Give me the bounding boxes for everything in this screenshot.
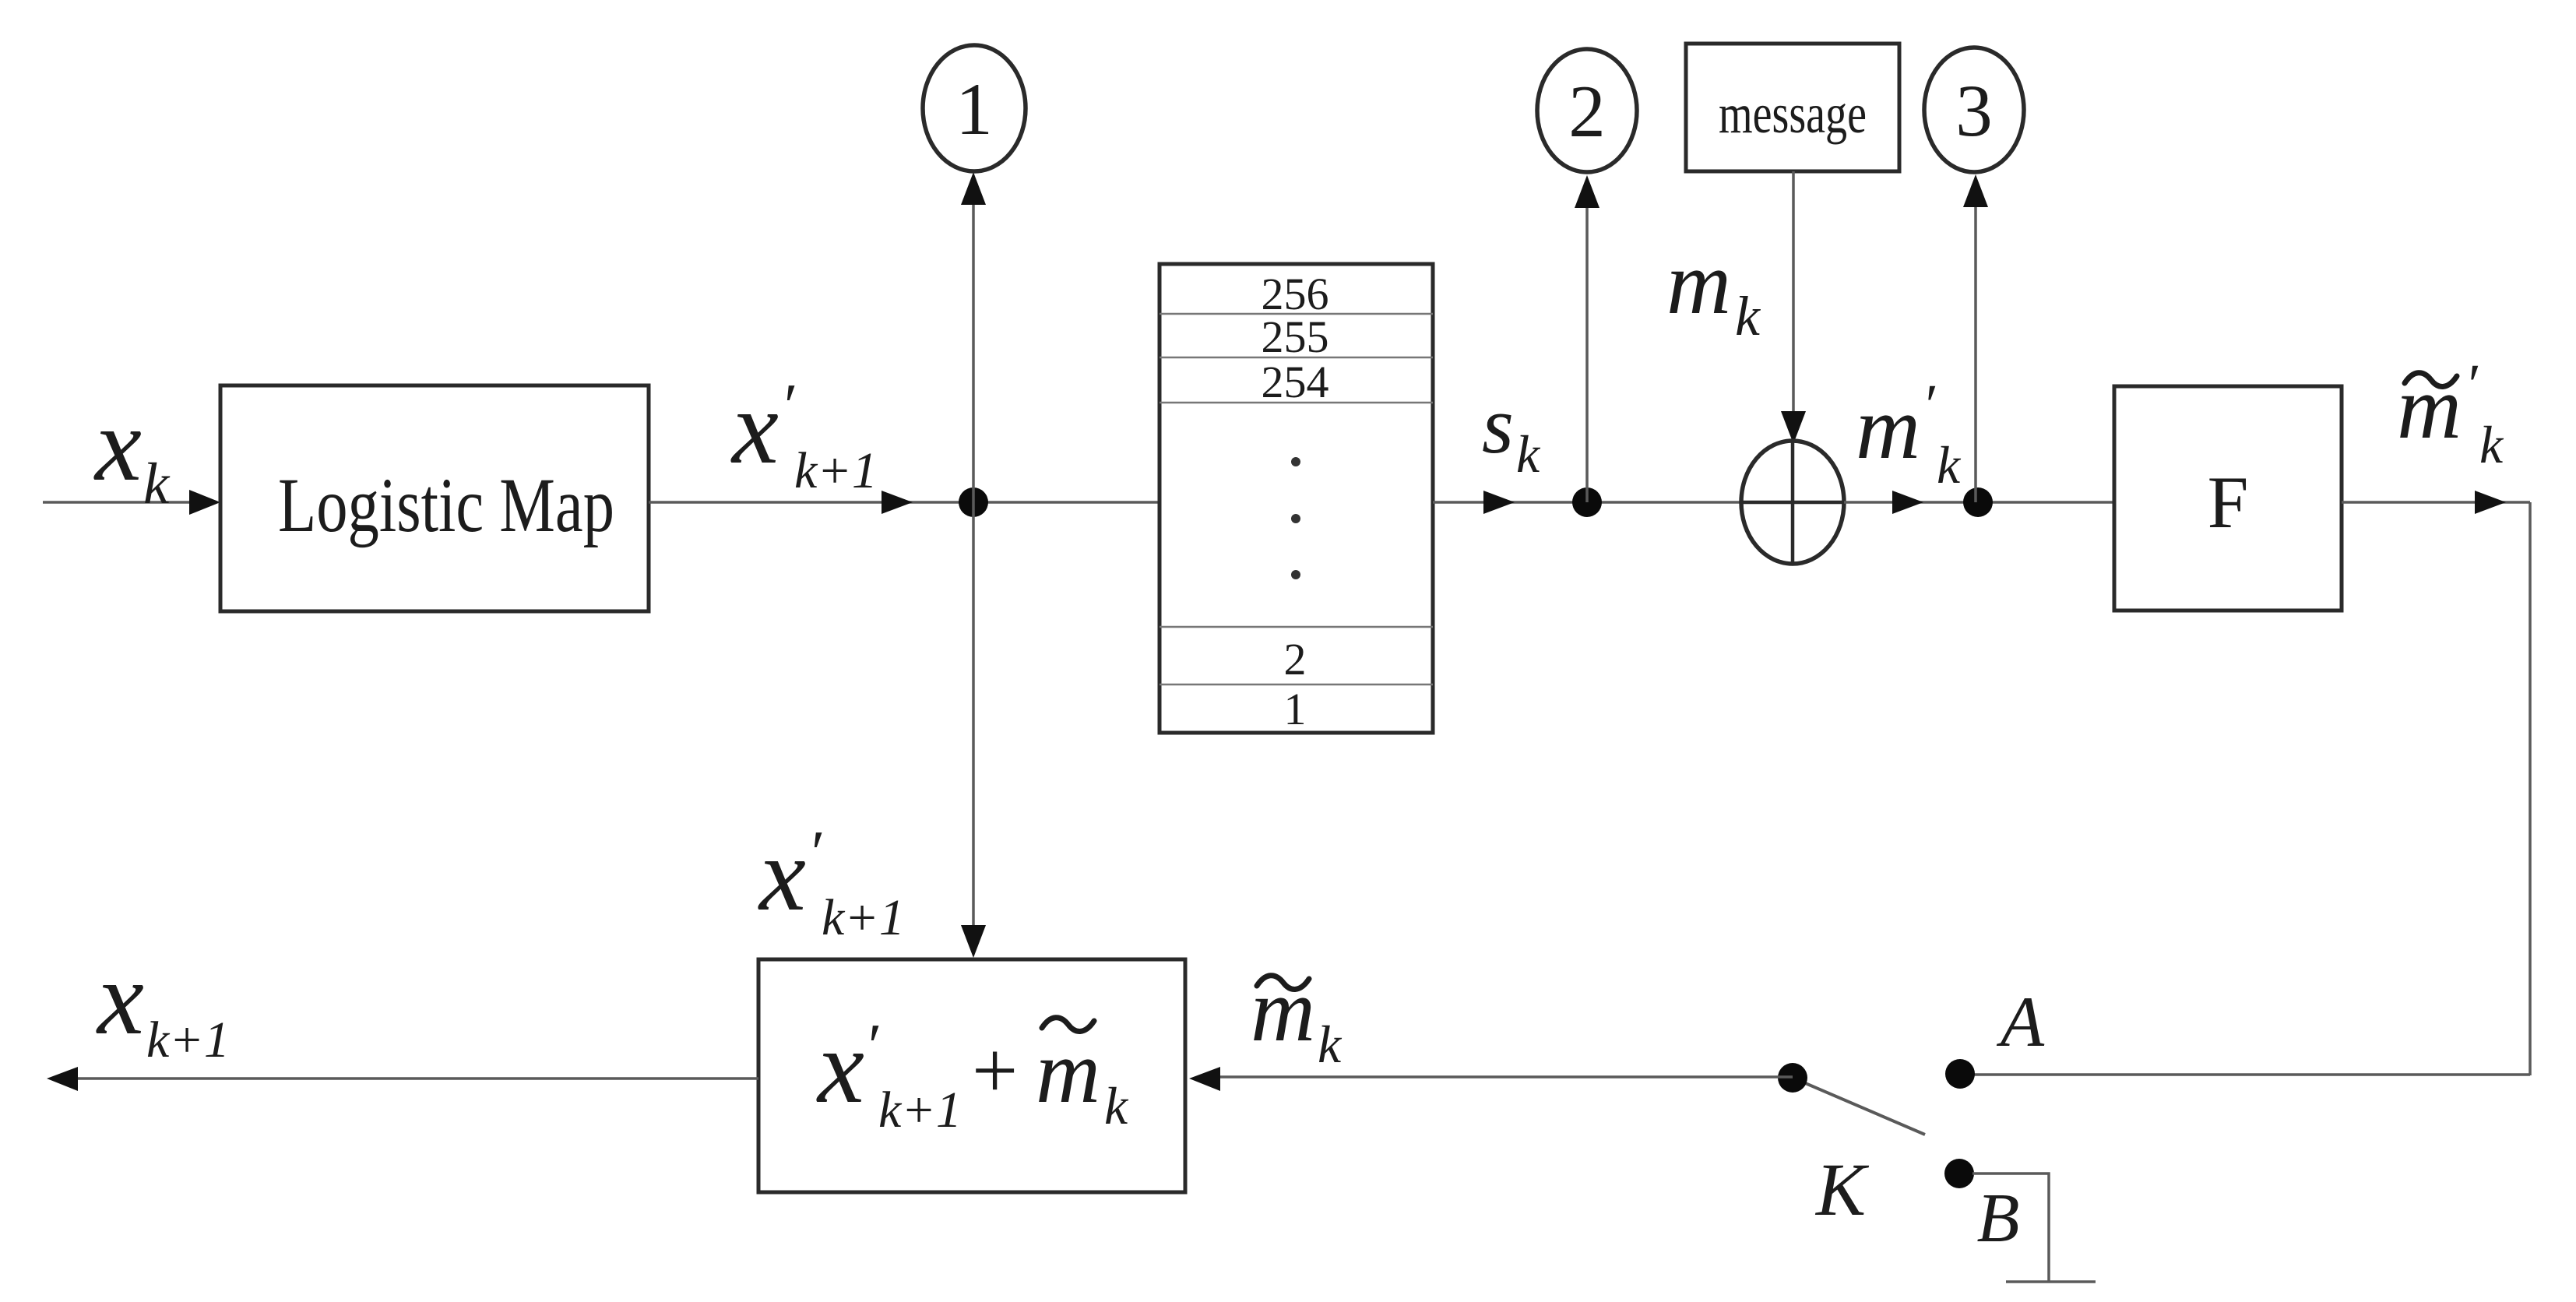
S-box table — [1160, 264, 1433, 734]
svg-text:message: message — [1719, 83, 1867, 145]
junction node J1 — [959, 487, 988, 517]
wire junction J1 down to adder box — [961, 502, 986, 958]
block F — [2114, 386, 2342, 611]
switch pivot node — [1778, 1063, 1807, 1093]
switch K arm — [1804, 1082, 1925, 1135]
wire switch pivot to adder box m~k — [1189, 1067, 1793, 1091]
adder XOR — [1741, 441, 1844, 564]
svg-text:B: B — [1977, 1180, 2020, 1257]
junction node J2 — [1572, 487, 1602, 517]
svg-text:2: 2 — [1568, 70, 1606, 153]
tap circle 3 — [1924, 48, 2024, 172]
switch terminal B node — [1944, 1159, 1974, 1188]
tap circle 1 — [923, 45, 1026, 171]
block adder x'k+1 + m~k — [758, 959, 1185, 1192]
termination bar — [2006, 1280, 2096, 1283]
wire junction J2 up to tap 2 — [1575, 175, 1599, 502]
block message source — [1686, 44, 1899, 171]
svg-text:1: 1 — [955, 68, 993, 150]
svg-text:3: 3 — [1955, 69, 1993, 152]
wire message mk down into XOR — [1781, 171, 1806, 444]
svg-text:Logistic Map: Logistic Map — [278, 462, 614, 548]
wire feedback right vertical — [2528, 502, 2532, 1075]
svg-text:A: A — [1996, 982, 2045, 1061]
wire Logistic Map output to table — [649, 491, 1160, 514]
wire junction J1 up to tap 1 — [961, 172, 986, 502]
wire terminal B to termination — [1972, 1174, 2049, 1282]
wire table output sk to XOR — [1433, 491, 1743, 514]
tap circle 2 — [1537, 49, 1637, 172]
svg-text:255: 255 — [1262, 311, 1329, 362]
svg-text:F: F — [2208, 461, 2249, 544]
wire junction J3 up to tap 3 — [1963, 174, 1988, 502]
node label m~k — [1251, 961, 1343, 1074]
wire input xk into Logistic Map — [43, 490, 220, 515]
block Logistic Map — [220, 385, 649, 611]
svg-text:K: K — [1814, 1148, 1870, 1231]
wire F output to right corner — [2342, 491, 2530, 514]
svg-text:254: 254 — [1262, 357, 1329, 407]
switch terminal A node — [1945, 1059, 1975, 1089]
wire adder output xk+1 — [47, 1067, 758, 1091]
wire XOR output m'k to F — [1844, 491, 2114, 514]
wire feedback bottom to switch terminal A — [1974, 1073, 2530, 1076]
junction node J3 — [1963, 487, 1993, 517]
node label m~'k — [2397, 353, 2504, 474]
svg-text:1: 1 — [1284, 684, 1307, 734]
svg-text:2: 2 — [1284, 634, 1307, 684]
